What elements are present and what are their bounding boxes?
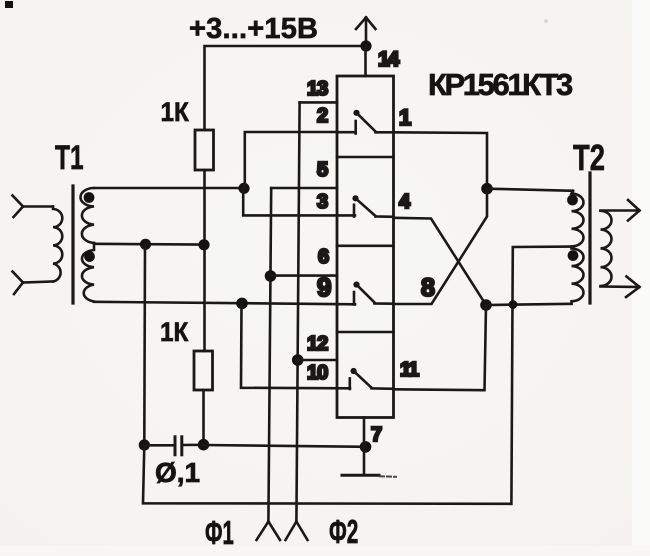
- svg-text:5: 5: [317, 159, 328, 181]
- scan speck top-right: [544, 19, 548, 23]
- wire pin 11 up to T2 bottom node: [394, 305, 487, 390]
- svg-text:Т1: Т1: [55, 139, 84, 177]
- node: junction dot +V / pin 14: [360, 40, 371, 51]
- T1 secondary lower winding: [82, 243, 94, 302]
- svg-text:+3...+15В: +3...+15В: [189, 13, 318, 45]
- svg-text:10: 10: [307, 362, 328, 384]
- node dot center tap at R divider: [198, 239, 209, 250]
- wire pin 4 diagonal down to T2 bottom node: [394, 218, 487, 305]
- wire +V rail horizontal: [205, 46, 367, 130]
- input arrow upper left: [13, 196, 24, 218]
- svg-text:КР1561КТ3: КР1561КТ3: [428, 67, 573, 102]
- IC body KR1561KT3: [337, 76, 394, 418]
- capacitor C1 0,1 plate left: [174, 437, 177, 455]
- wire T1 primary bottom lead: [23, 282, 53, 283]
- T2 secondary winding: [601, 211, 612, 286]
- T1 secondary upper winding: [81, 188, 94, 243]
- node dot pin 7: [360, 441, 372, 453]
- T2 primary lower winding: [572, 249, 584, 304]
- wire cap left lead: [144, 444, 175, 447]
- wire R1 bottom to R2 top: [203, 170, 206, 351]
- wire pin 14: [364, 46, 367, 76]
- wire cap right lead to R2 node: [182, 443, 204, 446]
- wire T2 bottom node to winding: [486, 304, 572, 305]
- wire pin 2 inside to switch 1: [337, 131, 356, 134]
- T2 phase dot lower: [568, 250, 579, 261]
- node dot pin 12 on F2 bus: [292, 354, 304, 366]
- IC divider 2: [337, 245, 394, 248]
- svg-text:6: 6: [318, 246, 329, 268]
- svg-text:14: 14: [378, 48, 400, 71]
- wire cap node to pin 7 node: [204, 445, 366, 447]
- control bus F2 (pins 13,12): [296, 102, 299, 521]
- resistor R2 1K: [194, 351, 213, 390]
- wire pin 10 branch down and right: [241, 303, 350, 388]
- wire pin 12 stub: [298, 359, 337, 362]
- svg-text:1: 1: [399, 105, 411, 130]
- wire T1 center tap: [94, 243, 204, 246]
- T1 phase dot lower: [84, 251, 95, 262]
- IC divider 3: [337, 331, 394, 334]
- switch 3 (pins 9/8, ctl 6): [353, 282, 393, 305]
- control bus F1 (pins 5,6): [268, 188, 271, 522]
- IC divider 1: [337, 156, 394, 159]
- svg-text:12: 12: [307, 333, 328, 355]
- T2 core: [588, 173, 591, 303]
- capacitor C1 plate right: [180, 437, 183, 455]
- ground symbol: [342, 474, 379, 477]
- node dot pin 6 on F1 bus: [265, 270, 277, 282]
- svg-text:13: 13: [307, 78, 328, 100]
- wire pin 6 stub: [271, 274, 338, 277]
- connector fork F1: [257, 522, 281, 541]
- wire output bottom with arrow: [601, 277, 640, 298]
- wire output top with arrow: [601, 200, 640, 221]
- wire pin 8 diagonal up to T2 top node: [394, 189, 488, 305]
- wire cap drop to bottom rail corner: [143, 445, 511, 504]
- input arrow lower left: [13, 272, 24, 295]
- node dot center tap / drop wire: [140, 239, 151, 250]
- node blob bus crossing T2 bottom wire: [509, 300, 518, 309]
- node dot T2 top (pins 1,8): [481, 183, 493, 195]
- wire T1 primary top lead: [23, 205, 53, 208]
- T1 phase dot upper: [84, 192, 95, 203]
- T1 core: [71, 186, 74, 303]
- svg-text:1К: 1К: [161, 98, 190, 127]
- power arrow up: [356, 18, 376, 47]
- T1 primary winding: [53, 207, 62, 282]
- svg-text:3: 3: [317, 191, 328, 213]
- wire node A up to pin 2: [245, 132, 337, 188]
- svg-text:2: 2: [317, 105, 328, 127]
- svg-text:11: 11: [400, 359, 419, 381]
- connector fork F2: [286, 522, 308, 541]
- wire T1 bottom secondary to pin 9: [94, 302, 355, 305]
- wire T2 top node to winding: [487, 189, 573, 191]
- node dot cap left: [139, 439, 150, 450]
- svg-text:Ф1: Ф1: [205, 514, 234, 551]
- resistor R1 1K: [195, 130, 214, 170]
- svg-text:8: 8: [421, 274, 435, 302]
- node dot cap right / R2: [198, 439, 210, 451]
- switch 2 (pins 3/4, ctl 5): [352, 195, 393, 217]
- wire R2 bottom to cap node: [202, 390, 205, 445]
- svg-text:Ф2: Ф2: [329, 513, 358, 550]
- wire T1 top secondary to node A: [94, 187, 244, 190]
- svg-text:4: 4: [399, 191, 411, 213]
- wire pin 1 to T2 node: [394, 132, 488, 188]
- svg-text:1К: 1К: [160, 318, 189, 347]
- wire pin 7 from IC bottom: [363, 418, 366, 475]
- node A dot (T1 top / pin2 / pin3): [238, 183, 249, 194]
- scan artifact top-left corner: [5, 1, 13, 8]
- wire pin 5 stub: [271, 187, 337, 190]
- switch 4 (pins 10/11, ctl 12): [350, 368, 394, 389]
- wire node A down to pin 3 run: [243, 188, 355, 215]
- T2 primary upper winding: [572, 191, 584, 247]
- svg-text:7: 7: [371, 424, 382, 446]
- wire bottom rail right riser to T2 center tap: [511, 247, 571, 504]
- node dot T2 bottom (pins 4,11): [480, 299, 492, 311]
- T2 phase dot upper: [567, 195, 578, 206]
- node dot T1 bottom / pin10 branch: [236, 298, 248, 310]
- wire center tap drop to cap: [143, 244, 146, 445]
- switch 1 (pins 2/1, ctl 13): [353, 110, 393, 134]
- svg-text:Ø,1: Ø,1: [155, 457, 200, 488]
- wire pin 13 stub: [300, 101, 337, 104]
